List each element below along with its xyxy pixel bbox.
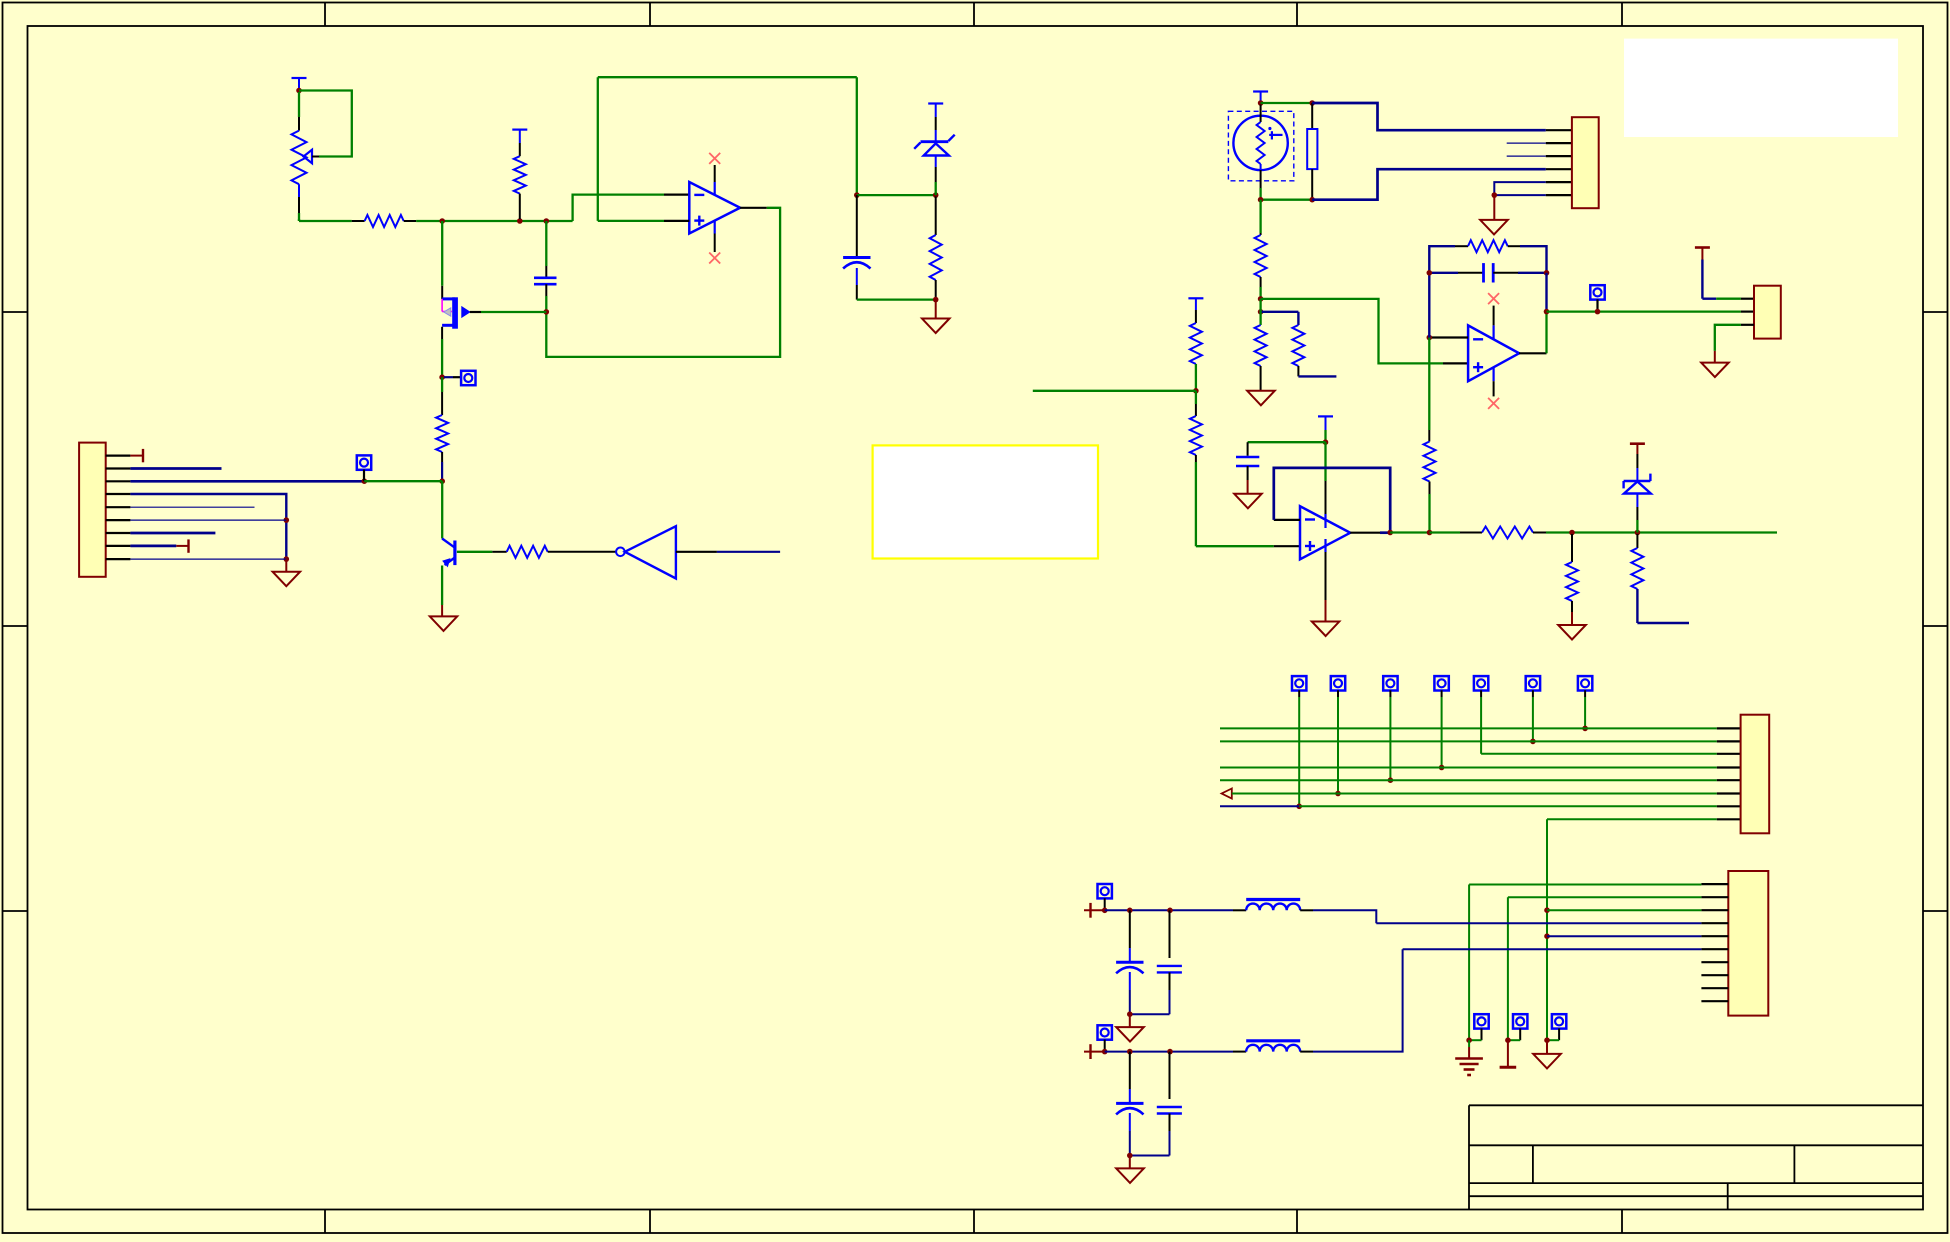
junction chain mid bbox=[1193, 388, 1199, 394]
junction pin3 node bbox=[362, 478, 368, 484]
junction bus 7 bbox=[1439, 765, 1445, 771]
junction U2 -in bbox=[1427, 335, 1433, 341]
wire LC2 input bbox=[1105, 1051, 1247, 1053]
port P14 bbox=[1513, 1014, 1527, 1040]
junction bus 9 bbox=[1530, 739, 1536, 745]
wire to J2 pin4 bbox=[1312, 169, 1572, 200]
port P12 bbox=[1098, 1025, 1112, 1051]
terminal T2 bbox=[1084, 1044, 1105, 1059]
ground GND7 bbox=[1234, 494, 1262, 509]
wire J5 pin6 bbox=[1403, 948, 1702, 950]
wire Q2 base bbox=[457, 551, 507, 553]
wire port P9 stub bbox=[1532, 690, 1534, 741]
ground GND6 bbox=[1701, 363, 1729, 378]
wire Q2 emitter bbox=[441, 566, 443, 617]
resistor R5 bbox=[507, 546, 548, 558]
wire J2 pin6 bbox=[1494, 194, 1572, 196]
port P8 bbox=[1474, 676, 1488, 690]
wire J1 pin6 bbox=[130, 519, 286, 521]
wire inverter input bbox=[676, 551, 780, 553]
junction LC1 a bbox=[1102, 908, 1108, 914]
wire node A main bbox=[416, 220, 572, 222]
U1 negative supply pin with no-ERC bbox=[709, 221, 720, 264]
junction LC1 gnd bbox=[1127, 1011, 1133, 1017]
wire L1 out bbox=[1300, 910, 1376, 923]
ground GND5 bbox=[1247, 391, 1275, 406]
junction pot top bbox=[296, 88, 302, 94]
wire net V2 long bbox=[1507, 897, 1509, 1040]
junction A1 bbox=[439, 218, 445, 224]
junction bar gnd bbox=[1505, 1037, 1511, 1043]
junction drain node bbox=[544, 309, 550, 315]
wire U2 output up bbox=[1519, 273, 1546, 354]
wire J5 pin1 bbox=[1469, 884, 1701, 886]
wire LDR top rail bbox=[1261, 102, 1313, 104]
wire decoupling rail bbox=[1248, 441, 1326, 443]
connector J3 bbox=[1754, 286, 1781, 339]
power port VCC4 bbox=[1318, 416, 1333, 442]
U2 top supply no-ERC bbox=[1488, 293, 1499, 339]
junction Rb bottom bbox=[1309, 197, 1315, 203]
ground GND2 bbox=[273, 559, 301, 586]
power port VCC2 bbox=[1253, 92, 1268, 104]
wire divider feedback bbox=[1428, 338, 1430, 442]
wire U1 +input feed loop bbox=[598, 77, 857, 221]
junction divider mid bbox=[1258, 296, 1264, 302]
power port VCC1 (blue T-bar) bbox=[292, 78, 307, 91]
junction C3 left bbox=[1427, 270, 1433, 276]
wire J2 pin3 bbox=[1507, 155, 1572, 157]
wire Q1 drain to node bbox=[470, 311, 547, 313]
wire output net bbox=[1546, 531, 1777, 533]
wire J5 pin3 bbox=[1547, 909, 1701, 911]
ground GND10 bbox=[1116, 1014, 1144, 1041]
junction LC1 c bbox=[1167, 908, 1173, 914]
wire net V1 long bbox=[1468, 885, 1470, 1041]
wire Q2 collector bbox=[441, 481, 443, 538]
junction tri gnd bbox=[1544, 1037, 1550, 1043]
wire LDR bottom rail bbox=[1261, 199, 1313, 201]
bar ground GND13 bbox=[1500, 1040, 1517, 1067]
junction LC2 c bbox=[1167, 1049, 1173, 1055]
wire J3 pin3 gnd bbox=[1715, 325, 1754, 363]
junction source node bbox=[439, 374, 445, 380]
port P6 bbox=[1383, 676, 1397, 690]
wire gate of Q1 bbox=[441, 221, 443, 299]
connector J1 bbox=[79, 443, 106, 577]
wire port P7 stub bbox=[1441, 690, 1443, 767]
wire L2 out bbox=[1300, 949, 1402, 1051]
wire U3 output bbox=[1350, 532, 1390, 534]
wire C6 bottom bbox=[1130, 1013, 1170, 1015]
resistor R10 chain top bbox=[1188, 298, 1203, 391]
wire to R8 bbox=[1261, 311, 1299, 313]
wire C1 bottom rail bbox=[857, 298, 936, 300]
J1 pin stubs bbox=[106, 456, 131, 559]
wire port P8 stub bbox=[1480, 690, 1482, 754]
junction J2 gnd bbox=[1492, 192, 1498, 198]
wire net V3 long bbox=[1546, 819, 1548, 1040]
wire U3 supply pin bbox=[1324, 442, 1326, 528]
port P4 bbox=[1292, 676, 1306, 690]
connector J5 bbox=[1728, 871, 1768, 1016]
wire U1 output loop bbox=[546, 208, 780, 357]
wire to U1 inverting input bbox=[573, 195, 690, 221]
op-amp U3 bbox=[1300, 506, 1350, 559]
wire J1 pin7 bbox=[130, 532, 215, 535]
ground GND11 bbox=[1116, 1156, 1144, 1183]
wire port P6 stub bbox=[1389, 690, 1391, 780]
junction U3 supply bbox=[1323, 439, 1329, 445]
op-amp U1 bbox=[689, 182, 740, 234]
wire J2 pin5 bbox=[1494, 182, 1572, 195]
wire J1 pin3 to base node bbox=[130, 480, 364, 483]
zener diode D2 bbox=[1624, 444, 1651, 533]
U2 bottom supply no-ERC bbox=[1488, 367, 1499, 409]
power port VCC3 for J3 bbox=[1695, 248, 1754, 299]
feedback capacitor C3 bbox=[1429, 263, 1546, 282]
junction zener node left bbox=[854, 192, 860, 198]
capacitor C4 bbox=[1236, 442, 1259, 494]
junction LC2 a bbox=[1102, 1049, 1108, 1055]
feedback loop U3 bbox=[1274, 468, 1390, 533]
resistor R9 bbox=[1255, 299, 1267, 391]
wire port P4 stub bbox=[1298, 690, 1300, 806]
junction base node bbox=[439, 478, 445, 484]
wire J1 pin8 with bar terminator bbox=[130, 539, 188, 552]
capacitor C7 polarized bbox=[1116, 1052, 1143, 1156]
junction LC1 b bbox=[1127, 908, 1133, 914]
wire J1 pin2 bbox=[130, 467, 221, 470]
bus row 7 bbox=[1220, 805, 1741, 807]
wire J2 pin2 bbox=[1507, 142, 1572, 144]
wire port P10 stub bbox=[1584, 690, 1586, 728]
port P10 bbox=[1578, 676, 1592, 690]
junction R4 bottom bbox=[933, 297, 939, 303]
ground GND3 bbox=[430, 616, 457, 631]
port P15 bbox=[1552, 1014, 1566, 1040]
junction LC2 gnd bbox=[1127, 1153, 1133, 1159]
earth ground GND12 bbox=[1455, 1040, 1483, 1075]
capacitor C8 bbox=[1157, 1052, 1182, 1156]
inductor L1 bbox=[1246, 900, 1300, 911]
wire R5 to inverter bbox=[548, 551, 616, 553]
resistor R13 bbox=[1424, 442, 1436, 533]
junction U2 out bbox=[1544, 309, 1550, 315]
connector J4 bbox=[1741, 715, 1770, 834]
junction LDR top bbox=[1258, 100, 1264, 106]
op-amp U2 bbox=[1468, 325, 1519, 381]
ground GND4 bbox=[1480, 195, 1508, 234]
junction LC2 b bbox=[1127, 1049, 1133, 1055]
white note box with yellow border bbox=[873, 445, 1098, 558]
title block bbox=[1469, 1105, 1923, 1209]
capacitor C6 bbox=[1157, 910, 1182, 1014]
wire P13 to earth bbox=[1469, 1039, 1481, 1041]
junction pin6 gnd bbox=[284, 517, 290, 523]
wire J5 pin2 bbox=[1508, 896, 1702, 898]
wire Q1 source down bbox=[441, 327, 443, 375]
resistor R11 chain bottom bbox=[1190, 391, 1202, 546]
wire CON4 pin8 bbox=[1547, 818, 1741, 820]
junction divider lower bbox=[1258, 309, 1264, 315]
wire U3 bottom supply bbox=[1324, 539, 1326, 622]
wire main node A bbox=[299, 219, 352, 221]
junction LDR bottom bbox=[1258, 197, 1264, 203]
zener diode D1 bbox=[914, 104, 955, 196]
wire port P5 stub bbox=[1337, 690, 1339, 793]
junction pin9 gnd bbox=[284, 556, 290, 562]
port P7 bbox=[1434, 676, 1448, 690]
wire pot wiper loop bbox=[299, 91, 352, 157]
J1 pin1 NC bar terminator bbox=[130, 449, 143, 462]
port P13 bbox=[1474, 1014, 1488, 1040]
ground GND9 bbox=[1558, 625, 1586, 640]
wire J1 pin9 bbox=[130, 558, 286, 560]
junction zener node right bbox=[933, 192, 939, 198]
wire J5 pin4 bbox=[1376, 922, 1701, 924]
wire U2 -input bbox=[1429, 336, 1468, 338]
bus row 2 bbox=[1220, 740, 1741, 742]
wire J1 pin4 to gnd rail bbox=[130, 494, 286, 559]
junction Rb top bbox=[1309, 100, 1315, 106]
wire out to R14 bbox=[1390, 531, 1429, 533]
port P9 bbox=[1526, 676, 1540, 690]
wire J5 pin5 bbox=[1547, 935, 1701, 937]
feedback resistor R12 bbox=[1429, 240, 1546, 337]
wire J1 pin5 bbox=[130, 506, 254, 508]
bus row 1 bbox=[1220, 727, 1741, 729]
junction V3 pin3 bbox=[1544, 907, 1550, 913]
junction V3 pin5 bbox=[1544, 933, 1550, 939]
junction bus 5 bbox=[1335, 791, 1341, 797]
wire P15 to gnd bbox=[1547, 1039, 1559, 1041]
wire base node green bbox=[364, 480, 442, 482]
ground GND14 bbox=[1533, 1040, 1561, 1068]
port P1 bbox=[444, 371, 476, 385]
J5 pin stubs bbox=[1701, 884, 1728, 1001]
junction P3 bbox=[1595, 309, 1601, 315]
junction C3 right bbox=[1544, 270, 1550, 276]
capacitor C1 polarized bbox=[843, 195, 870, 300]
bus row 5 bbox=[1220, 779, 1741, 781]
resistor R2 bbox=[512, 130, 527, 219]
capacitor C5 polarized bbox=[1116, 910, 1143, 1014]
inductor L2 bbox=[1246, 1041, 1300, 1052]
junction U3 out bbox=[1387, 530, 1393, 536]
connector J2 bbox=[1572, 117, 1599, 208]
junction A3 bbox=[544, 218, 550, 224]
wire zener node bbox=[857, 194, 936, 196]
ground GND8 bbox=[1312, 622, 1340, 637]
junction A2 bbox=[517, 218, 523, 224]
resistor R8 bbox=[1292, 312, 1336, 377]
transistor Q1 (MOSFET) bbox=[442, 297, 470, 328]
junction fb divider bbox=[1427, 530, 1433, 536]
capacitor C2 bbox=[534, 221, 557, 312]
junction D2 tap bbox=[1635, 530, 1641, 536]
wire U2 output to J3 bbox=[1547, 310, 1755, 312]
port P3 bbox=[1590, 285, 1604, 311]
photoresistor LDR1 bbox=[1228, 105, 1293, 200]
junction bus 10 bbox=[1582, 726, 1588, 732]
wire chain to U3 +input bbox=[1196, 545, 1300, 547]
wire source node down bbox=[441, 377, 443, 415]
resistor R16 bbox=[1631, 534, 1689, 623]
wire LC1 input bbox=[1105, 909, 1247, 911]
inverter U4 (NOT gate) bbox=[616, 526, 676, 578]
bus row 6 with arrow bbox=[1222, 789, 1741, 799]
resistor R4 bbox=[930, 197, 942, 299]
junction earth bbox=[1466, 1037, 1472, 1043]
bus row 4 bbox=[1220, 767, 1741, 769]
transistor Q2 (NPN) bbox=[442, 539, 455, 567]
junction R15 tap bbox=[1569, 530, 1575, 536]
port P5 bbox=[1331, 676, 1345, 690]
junction bus 6 bbox=[1388, 777, 1394, 783]
resistor R3 bbox=[436, 415, 448, 480]
resistor R1 bbox=[352, 215, 417, 227]
resistor R6 (rect style) bbox=[1307, 103, 1317, 200]
wire P14 to bar gnd bbox=[1508, 1039, 1520, 1041]
wire divider to U2 +input bbox=[1261, 299, 1469, 364]
terminal T1 bbox=[1084, 903, 1105, 918]
ground GND1 bbox=[922, 300, 950, 333]
port P2 bbox=[357, 455, 371, 481]
potentiometer RV1 bbox=[292, 92, 320, 221]
resistor R15 to gnd bbox=[1566, 534, 1578, 625]
bus row 3 bbox=[1481, 753, 1741, 755]
wire to J2 pin1 bbox=[1312, 103, 1572, 130]
wire U3 -input bbox=[1274, 519, 1300, 521]
resistor R14 bbox=[1430, 527, 1547, 539]
wire stub left bbox=[1033, 390, 1196, 392]
wire C8 bottom bbox=[1130, 1155, 1170, 1157]
resistor R7 divider bbox=[1255, 200, 1267, 299]
U1 positive supply pin with no-ERC bbox=[709, 153, 720, 195]
junction bus 4 bbox=[1296, 804, 1302, 810]
port P11 bbox=[1098, 884, 1112, 910]
white patch top right bbox=[1624, 39, 1898, 137]
